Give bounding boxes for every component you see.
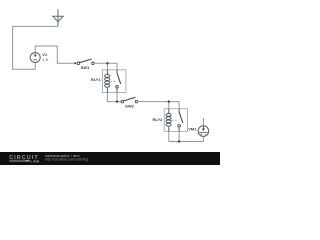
arrow shaft bbox=[202, 126, 204, 129]
antenna AT1 bbox=[53, 10, 63, 27]
relay box bbox=[103, 70, 126, 93]
wire V1 top to SW1 bbox=[35, 46, 75, 63]
svg-text:RLY1: RLY1 bbox=[91, 77, 102, 82]
wire coil-top drop bbox=[106, 63, 108, 70]
relay contact bbox=[116, 70, 118, 73]
voltage source V1 bbox=[30, 53, 40, 63]
relay contact bbox=[178, 109, 180, 112]
svg-text:SW1: SW1 bbox=[81, 65, 90, 70]
voltmeter VM1 bbox=[198, 118, 209, 136]
svg-text:LAB: LAB bbox=[30, 158, 40, 163]
svg-text:1 V: 1 V bbox=[42, 57, 48, 62]
relay box bbox=[164, 109, 187, 132]
svg-text:RLY2: RLY2 bbox=[153, 117, 164, 122]
relay RLY2 bbox=[164, 109, 187, 132]
meter plus minus bbox=[201, 133, 207, 135]
junction dot bbox=[116, 100, 118, 102]
junction dot bbox=[178, 140, 180, 142]
wire RLY2 coil bottom bbox=[168, 131, 170, 141]
wire RLY2 contact bottom to meter bbox=[169, 131, 204, 141]
label V1 value 1 V bbox=[42, 52, 48, 62]
wire antenna to left side down to V1 bottom bbox=[13, 26, 58, 69]
svg-text:SW2: SW2 bbox=[125, 103, 134, 108]
wire SW1 to RLY1 top, corner into contact bbox=[94, 63, 117, 70]
wire RLY1 coil bottom bbox=[107, 93, 120, 102]
wire end dot bbox=[74, 62, 76, 64]
watermark text bbox=[45, 154, 88, 161]
watermark bar bbox=[0, 152, 220, 165]
junction dot bbox=[106, 62, 108, 64]
svg-text:VM1: VM1 bbox=[188, 126, 197, 131]
relay coil bbox=[106, 70, 108, 93]
switch SW1 bbox=[77, 59, 94, 65]
relay coil bbox=[168, 109, 170, 132]
CircuitLab logo bbox=[9, 155, 40, 164]
svg-text:http //circuitlab.com/zebu7bg: http //circuitlab.com/zebu7bg bbox=[45, 157, 88, 161]
switch SW2 bbox=[121, 97, 138, 103]
wire RLY2 coil-top drop bbox=[168, 102, 170, 109]
wire RLY1 contact bottom bbox=[116, 93, 118, 102]
junction dot bbox=[168, 100, 170, 102]
arrowhead bbox=[202, 129, 205, 131]
relay RLY1 bbox=[103, 70, 126, 93]
dashed link bbox=[111, 80, 116, 82]
dashed link bbox=[172, 119, 177, 121]
chord line bbox=[199, 131, 209, 133]
top stub bbox=[202, 118, 204, 126]
wire SW2 to RLY2 top bbox=[138, 102, 179, 109]
